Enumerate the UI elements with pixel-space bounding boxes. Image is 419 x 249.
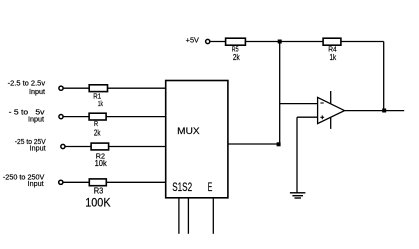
svg-text:E: E — [208, 180, 213, 194]
svg-text:+5V: +5V — [186, 38, 200, 45]
svg-text:-2.5 to 2.5v: -2.5 to 2.5v — [8, 81, 46, 88]
svg-text:100K: 100K — [85, 195, 110, 209]
svg-text:2k: 2k — [94, 129, 101, 138]
svg-text:1k: 1k — [329, 53, 336, 62]
svg-text:Input: Input — [28, 117, 44, 124]
svg-text:Input: Input — [28, 181, 44, 188]
svg-text:Input: Input — [29, 89, 45, 96]
svg-text:10k: 10k — [95, 159, 107, 168]
svg-text:MUX: MUX — [177, 126, 200, 137]
svg-text:2k: 2k — [233, 53, 240, 62]
svg-text:R: R — [94, 121, 98, 128]
svg-text:R3: R3 — [94, 185, 104, 195]
svg-text:Input: Input — [30, 146, 46, 153]
svg-text:- 5 to 5v: - 5 to 5v — [9, 109, 45, 116]
svg-text:S1S2: S1S2 — [172, 180, 192, 194]
svg-text:1k: 1k — [98, 99, 103, 108]
